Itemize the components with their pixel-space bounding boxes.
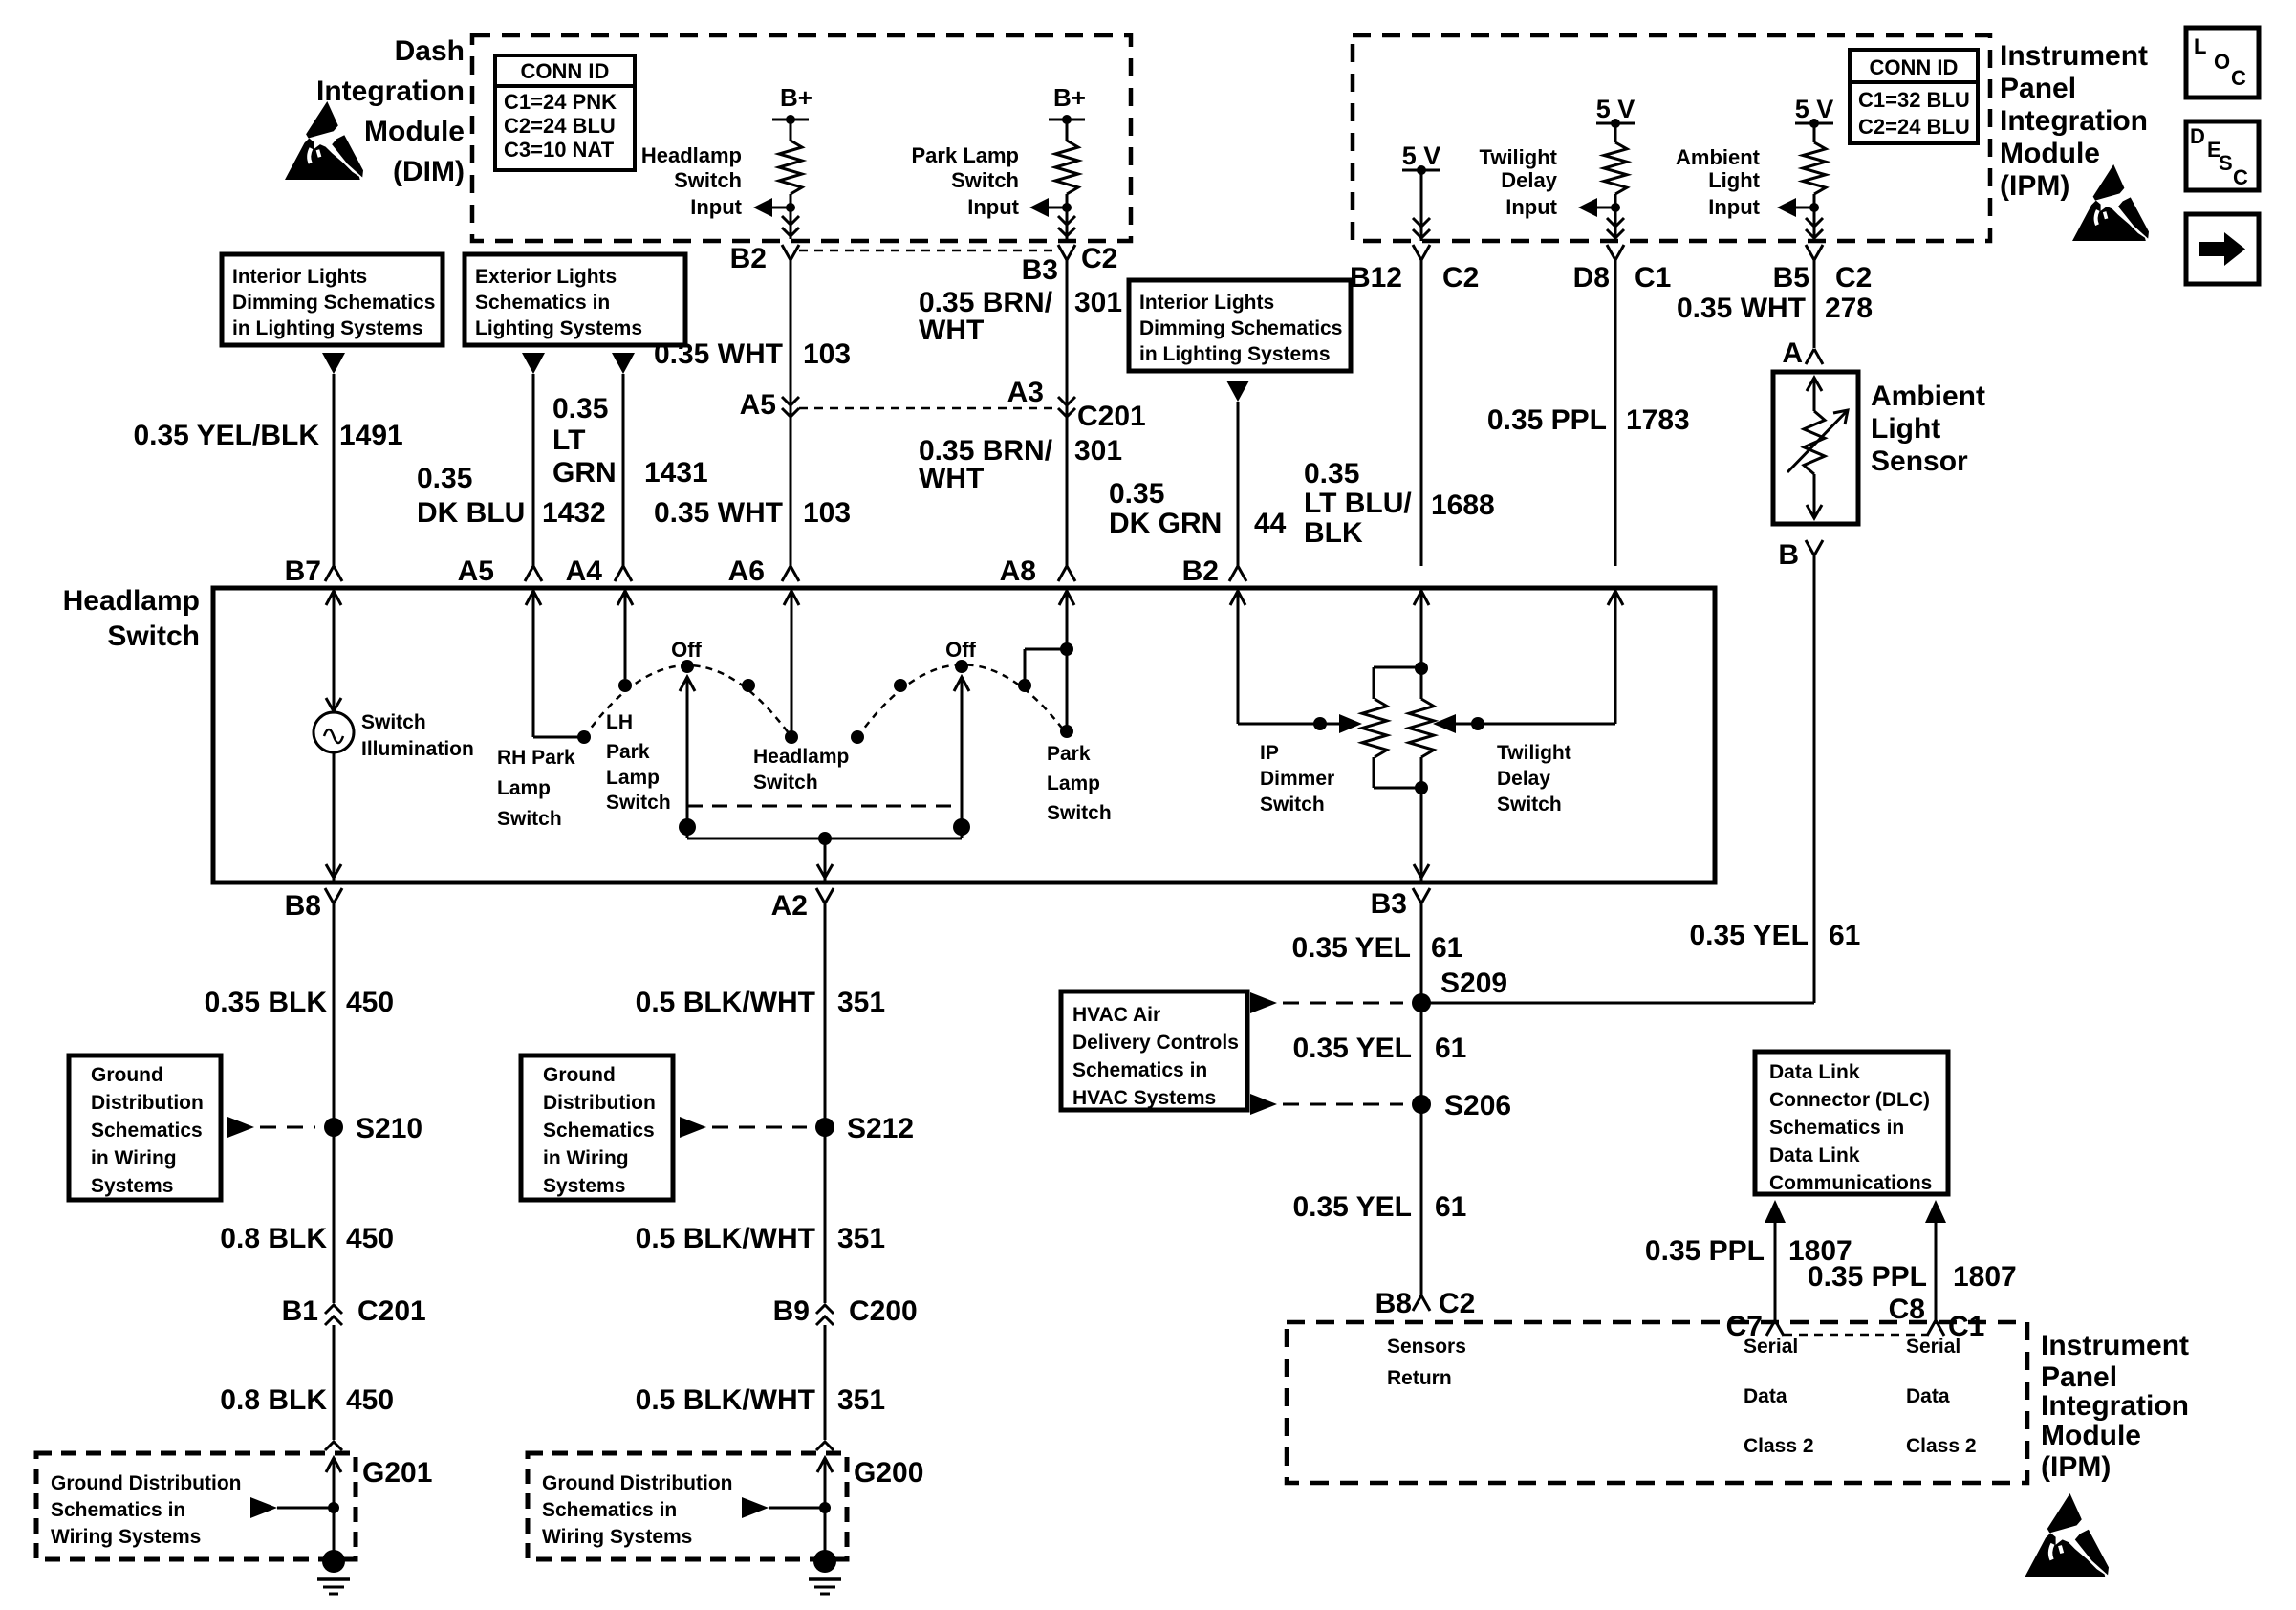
svg-text:Panel: Panel	[2041, 1361, 2117, 1393]
label Off (park lamp switch)	[945, 638, 976, 662]
label Headlamp Switch (internal)	[753, 746, 849, 794]
label 0.35 WHT 103 upper	[654, 338, 851, 370]
label Headlamp Switch Input	[641, 143, 743, 219]
wire B2 to A6 (0.35 WHT 103)	[790, 260, 792, 566]
svg-text:A4: A4	[566, 555, 603, 587]
svg-text:Illumination: Illumination	[361, 738, 474, 760]
svg-text:1432: 1432	[542, 497, 606, 529]
svg-text:B3: B3	[1022, 254, 1058, 286]
svg-text:Switch: Switch	[497, 808, 562, 830]
arrow from interior lights box right	[1226, 381, 1249, 402]
wire B3 to A8 (0.35 BRN/WHT 301)	[1066, 260, 1069, 566]
label 0.5 BLK/WHT 351 upper	[636, 987, 885, 1018]
connector pin A (ambient light sensor)	[1782, 337, 1823, 369]
wire wiper collector to A2	[687, 832, 962, 881]
svg-text:Headlamp: Headlamp	[753, 746, 849, 768]
svg-text:O: O	[2214, 50, 2230, 74]
wire D8 to B5 (0.35 PPL 1783)	[1614, 260, 1617, 566]
svg-text:in Wiring: in Wiring	[91, 1147, 177, 1169]
svg-text:450: 450	[346, 1384, 394, 1416]
label Ground Distribution Schematics in Wiring Systems (G200)	[542, 1472, 732, 1548]
label 0.35 LT BLU/BLK 1688	[1304, 458, 1495, 549]
connector ID table DIM	[495, 55, 635, 170]
svg-text:Ground Distribution: Ground Distribution	[51, 1472, 241, 1494]
wire switch illumination to B8	[326, 752, 341, 881]
label 0.35 DK BLU 1432	[417, 463, 606, 529]
svg-text:C201: C201	[357, 1295, 426, 1327]
arrow from interior lights box	[322, 353, 345, 374]
svg-text:Connector (DLC): Connector (DLC)	[1769, 1089, 1930, 1111]
svg-text:B8: B8	[285, 890, 321, 922]
label Serial Data Class 2 (C1)	[1906, 1336, 1977, 1457]
svg-text:Twilight: Twilight	[1497, 742, 1571, 764]
wiper headlamp switch	[679, 677, 696, 838]
resistor ambient light input pull-up	[1803, 123, 1826, 222]
svg-text:C2=24 BLU: C2=24 BLU	[504, 114, 616, 138]
power node 5V (B12)	[1402, 141, 1441, 222]
label RH Park Lamp Switch	[497, 747, 575, 830]
svg-text:351: 351	[837, 1384, 885, 1416]
ESD symbol IPM bottom	[2025, 1493, 2109, 1577]
svg-text:Switch: Switch	[753, 772, 818, 794]
label 0.35 PPL 1807 (C8/C1)	[1808, 1261, 2017, 1293]
module label Instrument Panel Integration Module (IPM) bottom	[2041, 1330, 2189, 1483]
svg-text:Input: Input	[967, 195, 1019, 219]
arrow twilight delay input tap	[1578, 198, 1620, 217]
svg-text:in Wiring: in Wiring	[543, 1147, 629, 1169]
svg-text:CONN ID: CONN ID	[1870, 55, 1959, 79]
arrow exterior lights box right	[612, 353, 635, 374]
svg-text:WHT: WHT	[919, 463, 984, 494]
label 0.35 WHT 278	[1677, 293, 1873, 324]
wire B2 IP dimmer wiper	[1230, 591, 1362, 733]
svg-text:C2: C2	[1442, 262, 1479, 294]
svg-text:Systems: Systems	[543, 1175, 625, 1197]
svg-text:Distribution: Distribution	[91, 1092, 204, 1114]
label Headlamp Switch	[63, 585, 200, 652]
wire A2 to S212 (0.5 BLK/WHT 351)	[824, 903, 827, 1127]
reference box Data Link Connector (DLC)	[1755, 1052, 1948, 1194]
svg-text:0.35 WHT: 0.35 WHT	[654, 497, 783, 529]
splice S206	[1250, 1090, 1511, 1121]
splice S212	[680, 1113, 914, 1144]
wire C200 to G200 (0.5 BLK/WHT 351)	[824, 1325, 827, 1440]
svg-text:Module: Module	[364, 116, 465, 147]
svg-text:Interior Lights: Interior Lights	[1139, 292, 1274, 314]
svg-text:Park Lamp: Park Lamp	[912, 143, 1020, 167]
wire B7 switch illumination feed	[326, 591, 341, 711]
svg-text:Ambient: Ambient	[1676, 145, 1761, 169]
connector pin A6 (headlamp switch)	[728, 555, 799, 587]
lamp switch illumination	[314, 712, 354, 752]
connector pin B7 (headlamp switch)	[285, 555, 342, 587]
connector pin B3 (DIM C2)	[1022, 245, 1075, 286]
svg-text:Ambient: Ambient	[1871, 381, 1985, 412]
svg-text:Lamp: Lamp	[497, 777, 551, 799]
svg-text:C3=10 NAT: C3=10 NAT	[504, 138, 615, 162]
svg-text:351: 351	[837, 1223, 885, 1254]
svg-text:C1=32 BLU: C1=32 BLU	[1858, 88, 1970, 112]
svg-text:B2: B2	[730, 243, 767, 274]
svg-text:Sensor: Sensor	[1871, 446, 1968, 477]
wire C7 to DLC (0.35 PPL 1807)	[1765, 1200, 1786, 1324]
svg-text:G201: G201	[362, 1457, 432, 1489]
svg-text:A8: A8	[1000, 555, 1036, 587]
svg-text:B8: B8	[1375, 1288, 1412, 1319]
svg-text:C2=24 BLU: C2=24 BLU	[1858, 115, 1970, 139]
svg-text:Sensors: Sensors	[1387, 1336, 1466, 1358]
potentiometer IP dimmer / twilight delay	[1362, 662, 1434, 794]
svg-text:WHT: WHT	[919, 315, 984, 346]
connector dashed boundary C7-C1	[1784, 1334, 1927, 1337]
svg-text:0.35 WHT: 0.35 WHT	[1677, 293, 1806, 324]
label 0.35 WHT 103 lower	[654, 497, 851, 529]
label Twilight Delay Input	[1480, 145, 1558, 219]
svg-text:B2: B2	[1182, 555, 1219, 587]
component box Headlamp Switch	[213, 588, 1715, 882]
svg-text:1783: 1783	[1626, 404, 1690, 436]
svg-text:B12: B12	[1350, 262, 1402, 294]
svg-text:Integration: Integration	[2000, 105, 2148, 137]
connector ID table IPM	[1850, 50, 1978, 143]
svg-text:Wiring Systems: Wiring Systems	[51, 1526, 201, 1548]
label Ambient Light Sensor	[1871, 381, 1985, 477]
svg-text:103: 103	[803, 338, 851, 370]
svg-text:Communications: Communications	[1769, 1172, 1932, 1194]
svg-text:Ground Distribution: Ground Distribution	[542, 1472, 732, 1494]
svg-text:Light: Light	[1708, 168, 1760, 192]
wire B5 twilight delay wiper	[1433, 591, 1623, 733]
svg-text:LH: LH	[606, 711, 633, 733]
wire potentiometer to B3	[1414, 788, 1429, 881]
svg-text:0.35 YEL: 0.35 YEL	[1292, 1191, 1412, 1223]
ground G200	[809, 1550, 841, 1594]
resistor park lamp switch input pull-up	[1055, 120, 1078, 220]
arrow ambient light input tap	[1777, 198, 1819, 217]
ESD symbol IPM top	[2072, 164, 2149, 241]
connector pin B12 (IPM C2)	[1350, 245, 1479, 294]
connector pin B8 (headlamp switch bottom)	[285, 888, 342, 922]
svg-text:Integration: Integration	[2041, 1390, 2189, 1422]
photoresistor ambient light sensor	[1787, 378, 1848, 518]
legend box LOC	[2186, 28, 2259, 98]
svg-text:0.35: 0.35	[552, 393, 608, 424]
svg-text:1491: 1491	[339, 420, 403, 451]
svg-text:D8: D8	[1573, 262, 1610, 294]
reference box Interior Lights Dimming Schematics (right)	[1129, 280, 1351, 371]
selector arc park lamp switch	[851, 660, 1067, 744]
svg-text:Return: Return	[1387, 1367, 1452, 1389]
svg-text:G200: G200	[854, 1457, 923, 1489]
module label Instrument Panel Integration Module (IPM) top	[2000, 40, 2148, 202]
svg-text:B9: B9	[773, 1295, 810, 1327]
svg-text:Wiring Systems: Wiring Systems	[542, 1526, 692, 1548]
connector pin A4 (headlamp switch)	[566, 555, 632, 587]
ESD symbol DIM	[285, 101, 363, 180]
label 0.35 PPL 1783	[1487, 404, 1690, 436]
label Serial Data Class 2 (C7)	[1744, 1336, 1814, 1457]
svg-text:B1: B1	[282, 1295, 318, 1327]
svg-text:Data Link: Data Link	[1769, 1144, 1860, 1166]
reference box Interior Lights Dimming Schematics (left)	[222, 254, 443, 345]
splice S210	[227, 1113, 422, 1144]
svg-text:0.8 BLK: 0.8 BLK	[220, 1384, 327, 1416]
svg-text:IP: IP	[1260, 742, 1279, 764]
svg-text:A: A	[1782, 337, 1803, 369]
connector pin C1 (IPM)	[1927, 1311, 1984, 1342]
svg-text:0.8 BLK: 0.8 BLK	[220, 1223, 327, 1254]
legend box forward arrow	[2186, 214, 2259, 284]
connector pin B2 (DIM C2)	[730, 243, 799, 274]
svg-text:Integration: Integration	[316, 76, 465, 107]
svg-text:DK GRN: DK GRN	[1109, 508, 1222, 539]
svg-text:RH Park: RH Park	[497, 747, 575, 769]
wire S209 to S206 (0.35 YEL 61)	[1420, 1003, 1423, 1104]
svg-text:C: C	[2231, 66, 2246, 90]
svg-text:0.35 PPL: 0.35 PPL	[1808, 1261, 1927, 1293]
svg-text:Module: Module	[2000, 138, 2100, 169]
svg-text:B3: B3	[1371, 888, 1407, 920]
svg-text:C2: C2	[1835, 262, 1872, 294]
svg-text:Input: Input	[1708, 195, 1760, 219]
svg-text:(IPM): (IPM)	[2041, 1451, 2111, 1483]
svg-text:C: C	[2233, 165, 2248, 189]
wire B12 to B1 (0.35 LT BLU/BLK 1688)	[1420, 260, 1423, 566]
svg-text:1431: 1431	[644, 457, 708, 489]
label 0.35 BRN/WHT 301 upper	[919, 287, 1122, 346]
svg-text:C1: C1	[1635, 262, 1671, 294]
svg-text:301: 301	[1074, 435, 1122, 467]
resistor twilight delay input pull-up	[1604, 123, 1627, 222]
wire C1 to DLC (0.35 PPL 1807)	[1925, 1200, 1946, 1324]
connector pin A8 (headlamp switch)	[1000, 555, 1075, 587]
svg-text:351: 351	[837, 987, 885, 1018]
module IPM dashed box	[1353, 35, 1990, 241]
svg-text:Serial: Serial	[1906, 1336, 1960, 1358]
connector chevron at G201	[325, 1442, 342, 1450]
svg-text:Delay: Delay	[1497, 768, 1550, 790]
connector pin B (ambient light sensor)	[1778, 539, 1823, 571]
svg-text:C2: C2	[1439, 1288, 1475, 1319]
wiper park lamp switch	[953, 677, 970, 838]
svg-text:Lighting Systems: Lighting Systems	[475, 317, 642, 339]
svg-text:A5: A5	[458, 555, 494, 587]
svg-text:Instrument: Instrument	[2041, 1330, 2189, 1361]
svg-text:LT: LT	[552, 424, 585, 456]
svg-text:Schematics in: Schematics in	[1769, 1117, 1904, 1139]
svg-text:Instrument: Instrument	[2000, 40, 2148, 72]
svg-text:0.35 YEL/BLK: 0.35 YEL/BLK	[133, 420, 319, 451]
svg-text:GRN: GRN	[552, 457, 617, 489]
svg-text:Off: Off	[945, 638, 976, 662]
svg-text:Schematics: Schematics	[543, 1120, 655, 1142]
label LH Park Lamp Switch	[606, 711, 671, 814]
arrow park lamp switch input tap	[1029, 198, 1072, 217]
svg-text:Twilight: Twilight	[1480, 145, 1558, 169]
splice S209	[1250, 968, 1507, 1013]
svg-text:Headlamp: Headlamp	[63, 585, 200, 617]
svg-text:Off: Off	[671, 638, 702, 662]
label 0.35 YEL 61 (S209-S206)	[1292, 1033, 1466, 1064]
svg-text:Delivery Controls: Delivery Controls	[1072, 1032, 1239, 1054]
svg-text:Serial: Serial	[1744, 1336, 1798, 1358]
svg-text:S210: S210	[356, 1113, 422, 1144]
svg-text:BLK: BLK	[1304, 517, 1363, 549]
ambient light sensor box	[1773, 372, 1858, 524]
ground G201	[317, 1550, 350, 1594]
label 0.35 PPL 1807 (C7)	[1645, 1235, 1852, 1267]
label 0.35 BLK 450	[205, 987, 394, 1018]
svg-text:1688: 1688	[1431, 490, 1495, 521]
label 0.35 YEL 61 (sensor branch)	[1689, 920, 1860, 951]
svg-text:Switch: Switch	[361, 711, 426, 733]
svg-text:S212: S212	[847, 1113, 914, 1144]
svg-text:Dimmer: Dimmer	[1260, 768, 1334, 790]
wire interior lights to B7 (0.35 YEL/BLK 1491)	[333, 374, 336, 568]
label 0.35 YEL 61 (B3)	[1291, 932, 1462, 964]
label Park Lamp Switch Input	[912, 143, 1020, 219]
label Ambient Light Input	[1676, 145, 1761, 219]
wire exit chevrons B12 (IPM)	[1413, 218, 1430, 241]
svg-text:0.35: 0.35	[417, 463, 472, 494]
svg-text:B: B	[1778, 539, 1799, 571]
svg-text:0.35 YEL: 0.35 YEL	[1689, 920, 1809, 951]
module DIM dashed box	[472, 35, 1131, 241]
connector pin B2 (headlamp switch)	[1182, 555, 1246, 587]
svg-text:Distribution: Distribution	[543, 1092, 656, 1114]
svg-text:C2: C2	[1081, 243, 1117, 274]
svg-text:Schematics in: Schematics in	[51, 1499, 185, 1521]
svg-text:Park: Park	[606, 741, 650, 763]
svg-text:Switch: Switch	[1497, 794, 1562, 816]
wire exit chevrons B2 (DIM)	[782, 216, 799, 239]
svg-text:(IPM): (IPM)	[2000, 170, 2069, 202]
svg-text:A2: A2	[771, 890, 808, 922]
wire B1 into potentiometer	[1414, 591, 1429, 667]
connector C2 dashed boundary	[799, 243, 1117, 274]
reference box Ground Distribution Schematics (middle)	[521, 1055, 673, 1200]
svg-text:Delay: Delay	[1501, 168, 1557, 192]
svg-text:C200: C200	[849, 1295, 918, 1327]
connector C201 dashed boundary	[799, 407, 1058, 410]
svg-text:Input: Input	[1505, 195, 1557, 219]
svg-text:0.35 BLK: 0.35 BLK	[205, 987, 328, 1018]
label Ground Distribution Schematics in Wiring Systems (G201)	[51, 1472, 241, 1548]
label 0.35 BRN/WHT 301 lower	[919, 435, 1122, 494]
svg-text:Schematics in: Schematics in	[475, 292, 610, 314]
connector pin B5 (IPM C2)	[1773, 245, 1873, 294]
svg-text:0.35: 0.35	[1109, 478, 1164, 510]
svg-text:Dash: Dash	[395, 35, 465, 67]
svg-text:(DIM): (DIM)	[393, 156, 465, 187]
svg-text:Park: Park	[1047, 743, 1091, 765]
svg-text:301: 301	[1074, 287, 1122, 318]
inline connector B1 / C201 (ground)	[282, 1295, 426, 1327]
svg-text:Dimming Schematics: Dimming Schematics	[1139, 317, 1342, 339]
power node B+ (park lamp switch input)	[1049, 83, 1086, 124]
wire exterior lights to A5 (0.35 DK BLU 1432)	[532, 374, 535, 568]
module IPM bottom dashed box	[1287, 1322, 2027, 1483]
svg-text:B7: B7	[285, 555, 321, 587]
svg-text:Switch: Switch	[951, 168, 1019, 192]
selector arc headlamp switch	[584, 660, 791, 737]
wire B3 to S209 (0.35 YEL 61)	[1420, 903, 1423, 1003]
label 0.5 BLK/WHT 351 middle	[636, 1223, 885, 1254]
svg-text:Exterior Lights: Exterior Lights	[475, 266, 617, 288]
svg-text:0.5 BLK/WHT: 0.5 BLK/WHT	[636, 1223, 815, 1254]
label Off (headlamp switch)	[671, 638, 702, 662]
wire S206 to B8 (0.35 YEL 61)	[1420, 1104, 1423, 1295]
svg-text:in Lighting Systems: in Lighting Systems	[1139, 343, 1331, 365]
svg-text:Switch: Switch	[1047, 802, 1112, 824]
svg-text:Data: Data	[1744, 1385, 1787, 1407]
svg-text:DK BLU: DK BLU	[417, 497, 525, 529]
inline connector A5 / C201 (left)	[740, 389, 799, 421]
svg-text:CONN ID: CONN ID	[521, 59, 610, 83]
reference box Ground Distribution Schematics (left)	[69, 1055, 221, 1200]
svg-text:Switch: Switch	[1260, 794, 1325, 816]
wire into G201 ground	[250, 1458, 341, 1561]
wire C201 to G201 (0.8 BLK 450)	[333, 1325, 336, 1440]
svg-text:A3: A3	[1007, 377, 1044, 408]
svg-text:in Lighting Systems: in Lighting Systems	[232, 317, 423, 339]
label Park Lamp Switch (internal)	[1047, 743, 1112, 824]
svg-text:0.35 YEL: 0.35 YEL	[1292, 1033, 1412, 1064]
svg-text:Switch: Switch	[606, 792, 671, 814]
ground reference box G201 (dashed)	[36, 1453, 432, 1559]
svg-text:Ground: Ground	[91, 1064, 163, 1086]
svg-text:0.35 PPL: 0.35 PPL	[1487, 404, 1607, 436]
label 0.35 LT GRN 1431	[552, 393, 708, 489]
svg-text:Lamp: Lamp	[606, 767, 660, 789]
svg-text:L: L	[2194, 34, 2206, 58]
svg-text:Module: Module	[2041, 1420, 2141, 1451]
svg-text:1807: 1807	[1953, 1261, 2017, 1293]
svg-text:61: 61	[1435, 1191, 1466, 1223]
svg-text:Switch: Switch	[674, 168, 742, 192]
svg-text:61: 61	[1829, 920, 1860, 951]
wire exit chevrons B5 (IPM)	[1806, 218, 1823, 241]
reference box HVAC Air Delivery Controls	[1061, 991, 1247, 1110]
svg-text:Lamp: Lamp	[1047, 772, 1100, 794]
wire exit chevrons B3 (DIM)	[1058, 216, 1075, 239]
label 0.35 DK GRN 44	[1109, 478, 1287, 539]
wire A8 park lamp contact	[1025, 591, 1074, 738]
svg-text:Input: Input	[690, 195, 742, 219]
svg-text:0.35: 0.35	[1304, 458, 1359, 490]
svg-text:D: D	[2190, 124, 2205, 148]
svg-text:Schematics in: Schematics in	[542, 1499, 677, 1521]
svg-text:Schematics in: Schematics in	[1072, 1059, 1207, 1081]
resistor headlamp switch input pull-up	[779, 120, 802, 220]
connector pin D8 (IPM C1)	[1573, 245, 1672, 294]
label Sensors Return	[1387, 1336, 1466, 1389]
wire S210 to C201 (0.8 BLK 450)	[333, 1127, 336, 1303]
power node 5V (D8)	[1596, 95, 1635, 128]
svg-text:A6: A6	[728, 555, 765, 587]
svg-text:S: S	[2219, 151, 2233, 175]
svg-text:B+: B+	[1053, 83, 1086, 112]
power node 5V (B5)	[1795, 95, 1834, 128]
wire interior lights to B2 (0.35 DK GRN 44)	[1237, 402, 1240, 568]
wire ambient light sensor B to S209 (0.35 YEL 61)	[1421, 555, 1814, 1003]
power node B+ (headlamp switch input)	[772, 83, 812, 124]
ground reference box G200 (dashed)	[528, 1453, 923, 1559]
inline connector B9 / C200 (ground)	[773, 1295, 918, 1327]
svg-text:C201: C201	[1077, 401, 1146, 432]
svg-text:Data: Data	[1906, 1385, 1950, 1407]
connector pin B8 (IPM C2)	[1375, 1288, 1476, 1319]
